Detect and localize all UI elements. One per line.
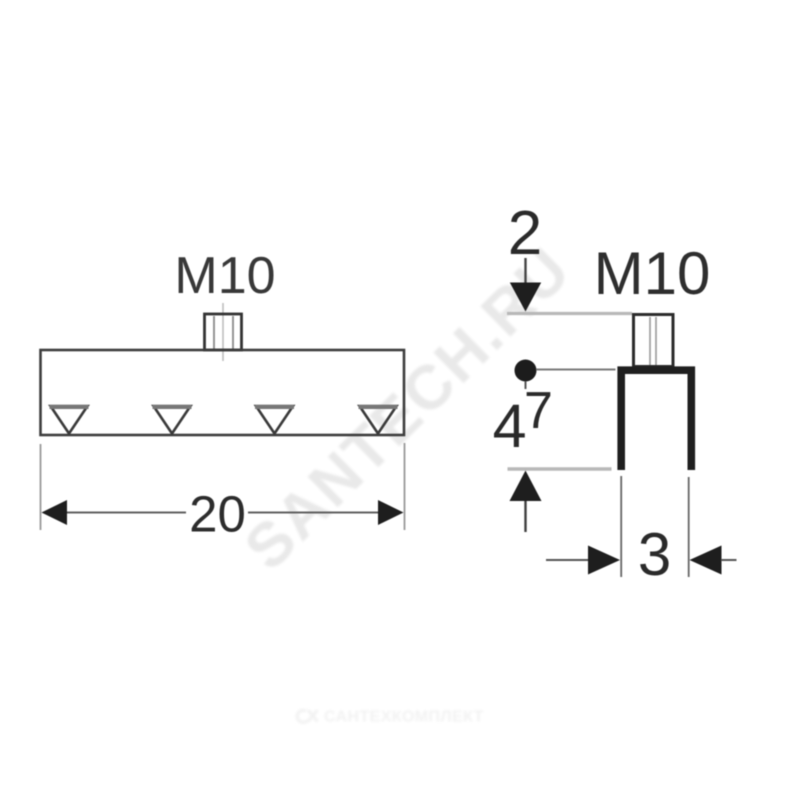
svg-text:M10: M10	[174, 247, 275, 305]
svg-text:20: 20	[189, 486, 246, 543]
svg-text:САНТЕХКОМПЛЕКТ: САНТЕХКОМПЛЕКТ	[324, 709, 484, 726]
svg-text:M10: M10	[594, 240, 711, 307]
svg-text:7: 7	[524, 382, 553, 440]
svg-text:2: 2	[508, 199, 542, 268]
svg-text:3: 3	[638, 521, 671, 588]
svg-text:4: 4	[493, 392, 527, 460]
